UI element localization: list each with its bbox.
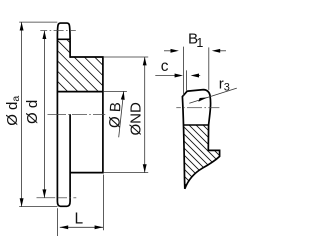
dimension OB: extension line (103, 90, 127, 92)
dimension L: extension lines (57, 208, 59, 236)
outer silhouette: left edge, bottom tooth, right edge lower (57, 39, 70, 206)
svg-text:Ø d: Ø d (24, 100, 41, 124)
dimension OB: oblique line (119, 91, 124, 137)
svg-text:Ø B: Ø B (106, 102, 124, 129)
dimension da: extension lines (19, 21, 57, 23)
dash-dot pitch line bottom (37, 197, 77, 199)
tooth top outline (57, 23, 70, 39)
dimension L: line (60, 226, 103, 228)
dimension OND: line (144, 57, 146, 173)
hatching upper section (40, 2, 120, 144)
dimension d: line (43, 31, 45, 198)
hub outline (70, 57, 103, 173)
tooth profile outline right (182, 90, 219, 189)
dimension OND: arrows (143, 57, 147, 65)
svg-text:L: L (75, 210, 84, 227)
dimension B1: line + arrows (164, 50, 174, 52)
dimension L: arrows (60, 225, 68, 229)
dash-dot pitch line right (176, 107, 219, 109)
svg-text:c: c (161, 58, 169, 75)
dash-dot pitch line top (40, 30, 76, 32)
tooth root line top (57, 38, 71, 40)
dimension da: arrows (20, 22, 24, 30)
dimension c: extension lines (186, 70, 188, 90)
dimension OND: extension lines (103, 56, 148, 58)
dimension da: line (21, 22, 23, 207)
svg-text:ØND: ØND (128, 102, 145, 136)
dimension c: line + arrows (155, 75, 176, 77)
r3 leader arrow (198, 97, 207, 101)
bore top edge (57, 91, 103, 93)
r3 leader line (189, 88, 237, 103)
dimension d: arrows (42, 31, 46, 39)
dimension OB: arrow (121, 91, 125, 99)
tooth root line right (184, 124, 209, 126)
dimension B1: extension lines (183, 47, 185, 96)
dash-dot axis (48, 114, 106, 116)
hatching right (170, 85, 240, 246)
plate right edge upper (69, 39, 71, 58)
